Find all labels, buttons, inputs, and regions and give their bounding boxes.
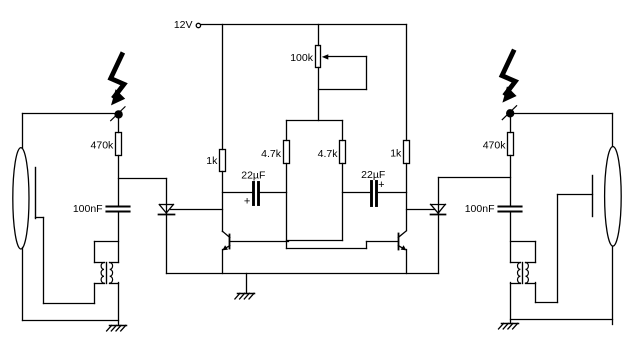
wire splitter to R5 4.7k left [286, 121, 288, 141]
resistor R1 470k left body [116, 133, 122, 156]
svg-text:12V: 12V [174, 19, 193, 31]
capacitor C3 22uF left plates [254, 183, 259, 205]
speaker M2 right electrode bar [592, 176, 594, 217]
wire M2 bar to transformer T2 [536, 195, 593, 303]
wire Q1 collector branch left [222, 172, 224, 232]
svg-text:+: + [378, 179, 384, 191]
wire Q2 base run [367, 241, 399, 243]
wire diode D1 to Q1 collector node [171, 209, 223, 211]
wire LDR right to speaker top corner [515, 113, 613, 115]
wire LDR dot to R2 470k right [510, 114, 512, 133]
svg-text:1k: 1k [206, 155, 218, 167]
wire Q2 emitter to ground rail [406, 250, 408, 274]
wire C1 to transformer T1 [118, 213, 120, 263]
wire R6 4.7k right bottom branch [342, 164, 344, 241]
speaker M2 right capsule [605, 147, 622, 247]
ground left [107, 325, 127, 331]
wire 12V top rail [201, 24, 407, 26]
wire R2 to C2 100nF right [510, 156, 512, 206]
diode D1 left [159, 205, 175, 215]
LDR slash left [111, 107, 125, 121]
wire cross-coupling left node to R6 node [287, 240, 343, 242]
capacitor C2 100nF right plates [499, 207, 522, 212]
wire microphone M1 top lead [22, 114, 24, 149]
LDR slash right [502, 106, 516, 120]
wire 12V rail to P1 pot top [318, 25, 320, 46]
wire node left to diode D1 top [119, 178, 167, 180]
wire LDR left to microphone top [23, 113, 115, 115]
ground right [499, 323, 519, 329]
wire P1 bottom to splitter [318, 68, 320, 121]
potentiometer P1 100k body [316, 46, 321, 68]
wire cross-coupling riser [366, 242, 368, 249]
transistor Q1 left [222, 231, 230, 250]
wire LDR dot to R1 470k left [118, 115, 120, 133]
LDR junction dot right [506, 109, 514, 117]
wire C3 left lead [223, 192, 253, 194]
svg-text:22µF: 22µF [241, 170, 265, 182]
transformer T1 left [95, 242, 119, 304]
wire splitter horizontal [287, 120, 343, 122]
wire left bottom rail [23, 320, 119, 322]
LDR junction dot left [114, 110, 122, 118]
node 12V terminal circle [196, 23, 200, 27]
resistor R3 1k left body [220, 150, 226, 172]
light arrow bolt left (LDR light symbol) [111, 55, 126, 106]
svg-text:4.7k: 4.7k [261, 148, 282, 160]
wire node right to diode D2 top [439, 177, 511, 179]
wire M1 bar to transformer T1 [36, 218, 95, 304]
wire Q2 collector branch right [406, 164, 408, 231]
wire P1 wiper feedback bottom [319, 89, 367, 91]
svg-text:1k: 1k [390, 147, 402, 159]
wire 12V rail to R3 1k left [222, 25, 224, 150]
wire C2 to transformer T2 [510, 213, 512, 263]
wire R5 4.7k left bottom branch [286, 164, 288, 249]
diode D2 right [431, 204, 446, 214]
svg-text:470k: 470k [483, 139, 507, 151]
svg-text:100nF: 100nF [73, 203, 103, 215]
potentiometer P1 wiper arrow [322, 54, 367, 59]
svg-text:4.7k: 4.7k [318, 148, 339, 160]
wire microphone M1 bottom lead [22, 248, 24, 321]
transformer T2 right [511, 242, 536, 284]
capacitor C4 22uF right plates [372, 182, 377, 206]
wire diode D2 to Q2 collector node [407, 209, 435, 211]
wire speaker M2 bottom lead [612, 247, 614, 325]
resistor R5 4.7k left body [284, 141, 290, 164]
wire Q1 base run [230, 241, 289, 243]
resistor R6 4.7k right body [340, 141, 346, 164]
ground middle [235, 293, 255, 299]
microphone M1 left electrode bar [35, 168, 37, 219]
wire C3 right lead [260, 192, 287, 194]
wire diode D1 vertical [166, 179, 168, 274]
wire speaker M2 top lead [612, 114, 614, 147]
wire R1 to C1 100nF left [118, 156, 120, 206]
capacitor C1 100nF left plates [107, 207, 130, 212]
wire Q1 emitter to ground rail [222, 250, 224, 274]
wire splitter to R6 4.7k right [342, 121, 344, 141]
transistor Q2 right [398, 231, 406, 251]
wire C4 left lead [343, 192, 370, 194]
wire middle ground rail [167, 273, 439, 275]
wire diode D2 vertical [438, 178, 440, 274]
wire C4 right lead [379, 192, 407, 194]
wire middle ground stem [246, 274, 248, 294]
light arrow bolt right (LDR light symbol) [502, 52, 517, 103]
wire P1 wiper feedback right side [366, 57, 368, 90]
wire T1 secondary bottom to ground [118, 283, 120, 326]
svg-text:+: + [244, 196, 250, 208]
resistor R2 470k right body [508, 133, 514, 156]
resistor R4 1k right body [404, 141, 410, 164]
wire T2 primary bottom to ground [510, 283, 512, 324]
wire right bottom rail [511, 319, 613, 321]
svg-text:100nF: 100nF [465, 203, 495, 215]
wire cross-coupling low run [287, 248, 367, 250]
svg-text:100k: 100k [290, 52, 314, 64]
wire 12V rail to R4 1k right [406, 25, 408, 141]
svg-text:470k: 470k [91, 139, 115, 151]
microphone M1 left capsule [13, 148, 29, 249]
